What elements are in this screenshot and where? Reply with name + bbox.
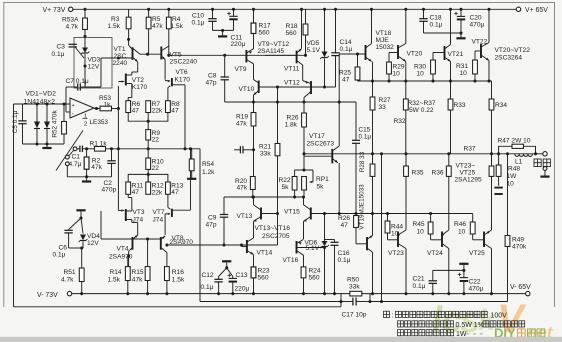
node top rail: [211, 8, 214, 11]
svg-text:VT1: VT1: [114, 46, 126, 53]
wire VT5 base line: [140, 53, 161, 55]
wire diag C12: [219, 268, 227, 277]
svg-text:47: 47: [171, 189, 179, 196]
svg-text:560: 560: [258, 274, 269, 281]
pot RP1: [302, 177, 307, 191]
svg-text:0.1μ: 0.1μ: [338, 257, 351, 264]
transistor Q VT15: [310, 208, 312, 220]
svg-text:R51: R51: [64, 269, 76, 276]
resistor R22: [292, 177, 297, 191]
capacitor C5: [22, 104, 24, 121]
svg-text:R32~R37: R32~R37: [408, 100, 436, 107]
transistor Q VT11: [296, 51, 298, 64]
wire R49 top: [507, 154, 509, 236]
resistor R37: [489, 166, 494, 176]
transistor Q VT5: [160, 47, 162, 60]
node top rail: [370, 8, 373, 11]
svg-text:VT3: VT3: [133, 209, 145, 216]
wire C3 diag: [75, 48, 84, 59]
svg-text:VT4: VT4: [117, 246, 129, 253]
svg-text:VT6: VT6: [176, 69, 188, 76]
wire driver line81: [358, 80, 492, 82]
svg-text:22: 22: [152, 136, 160, 143]
svg-text:47p: 47p: [206, 80, 217, 87]
svg-text:1.5k: 1.5k: [171, 23, 184, 30]
svg-text:220μ: 220μ: [231, 41, 246, 48]
svg-text:C12: C12: [202, 272, 214, 279]
node top rail: [300, 8, 303, 11]
resistor R47: [499, 146, 512, 154]
svg-text:VT23~: VT23~: [456, 162, 476, 169]
resistor R3: [128, 9, 130, 17]
node top rail: [83, 8, 86, 11]
svg-text:560: 560: [309, 275, 320, 282]
resistor R23: [251, 267, 256, 278]
svg-text:47: 47: [132, 107, 140, 114]
resistor R19: [253, 102, 255, 113]
wire R21 bot: [277, 156, 279, 245]
svg-text:R44: R44: [391, 223, 403, 230]
svg-text:10: 10: [460, 70, 468, 77]
capacitor C7: [66, 86, 77, 88]
svg-text:2SA1295: 2SA1295: [455, 176, 482, 183]
wire R10 bot: [147, 169, 149, 182]
svg-text:R29: R29: [393, 63, 405, 70]
resistor R30: [432, 53, 434, 61]
wire nfb line: [106, 148, 201, 150]
jfet VT6: [164, 60, 166, 80]
svg-text:VD3: VD3: [88, 57, 101, 64]
svg-text:2SC: 2SC: [114, 53, 127, 60]
wire R33 bus: [450, 110, 452, 154]
svg-text:2: 2: [84, 122, 87, 128]
capacitor C20: [460, 9, 462, 16]
wire line197: [224, 196, 304, 198]
svg-text:R5: R5: [152, 16, 161, 23]
svg-text:VT9: VT9: [235, 66, 247, 73]
svg-text:22k: 22k: [152, 189, 163, 196]
wire line102: [225, 101, 356, 103]
resistor R2: [86, 149, 88, 157]
capacitor C16: [325, 239, 335, 241]
svg-text:1.5k: 1.5k: [172, 276, 185, 283]
svg-text:VT25: VT25: [460, 169, 476, 176]
wire R34 bus: [491, 110, 493, 154]
transistor Q VT19: [366, 237, 368, 250]
svg-text:VD4: VD4: [87, 233, 100, 240]
svg-text:0.1μ: 0.1μ: [430, 21, 443, 28]
svg-text:R23: R23: [258, 267, 270, 274]
svg-text:R49: R49: [512, 236, 524, 243]
capacitor C17: [341, 301, 352, 303]
zener VD6: [324, 214, 326, 242]
capacitor C13: [232, 277, 234, 279]
svg-text:470k: 470k: [512, 244, 527, 251]
wire R49 bottom: [507, 247, 509, 302]
wire R26b bot: [303, 127, 305, 154]
svg-text:R18: R18: [286, 23, 298, 30]
svg-text:470μ: 470μ: [470, 22, 485, 29]
ground C12C13: [222, 260, 231, 262]
capacitor C1: [77, 148, 79, 150]
svg-text:4.7μ: 4.7μ: [69, 161, 82, 168]
wire main bus: [304, 153, 536, 155]
svg-text:K170: K170: [132, 84, 148, 91]
jfet VT3: [127, 194, 129, 197]
wire R53A bottom: [84, 30, 86, 38]
svg-text:C6: C6: [59, 244, 68, 251]
capacitor C6: [64, 229, 72, 231]
wire R27 bus: [372, 110, 374, 164]
svg-text:C14: C14: [340, 39, 352, 46]
wire src bar bot: [128, 174, 168, 182]
svg-text:R15: R15: [132, 269, 144, 276]
resistor R17: [253, 9, 255, 23]
ground output: [544, 170, 546, 175]
svg-text:470μ: 470μ: [469, 286, 484, 293]
inductor L1: [515, 154, 533, 157]
resistor R8: [166, 101, 171, 113]
resistor R51: [79, 268, 84, 282]
wire VT4 base line: [101, 238, 161, 240]
svg-text:2240: 2240: [113, 60, 128, 67]
svg-text:R47 2W 10: R47 2W 10: [498, 137, 531, 144]
svg-text:4.7k: 4.7k: [61, 276, 74, 283]
svg-text:R25: R25: [339, 69, 351, 76]
svg-text:VT13~VT16: VT13~VT16: [255, 225, 291, 232]
svg-text:C21: C21: [413, 275, 425, 282]
node top rail: [334, 8, 337, 11]
node top rail: [459, 8, 462, 11]
wire diag VD4: [81, 218, 83, 234]
svg-text:1.2k: 1.2k: [202, 169, 215, 176]
svg-text:VT13: VT13: [237, 213, 253, 220]
resistor R12: [146, 182, 151, 194]
zener VD3: [84, 38, 86, 48]
svg-text:C9: C9: [208, 214, 217, 221]
jfet VT2: [137, 62, 139, 72]
resistor R10: [146, 158, 151, 169]
svg-text:VT17: VT17: [309, 133, 325, 140]
note line3: [398, 330, 404, 336]
resistor R53: [100, 106, 112, 111]
svg-text:C13: C13: [236, 272, 248, 279]
jfet VT7: [167, 194, 169, 207]
ground C10C11: [218, 35, 227, 37]
transistor Q VT20: [397, 45, 399, 59]
resistor R15: [145, 267, 150, 281]
svg-text:12V: 12V: [88, 64, 100, 71]
zener VD4: [80, 235, 86, 241]
transistor Q VT9: [253, 34, 255, 49]
resistor R45: [430, 214, 432, 223]
svg-text:12V: 12V: [87, 240, 99, 247]
svg-text:VT19MJE15033: VT19MJE15033: [359, 184, 366, 230]
svg-text:VD5: VD5: [307, 40, 320, 47]
wire src bar top: [128, 113, 168, 122]
svg-text::: :: [392, 313, 394, 320]
ground C21C22: [459, 263, 468, 265]
transistor Q VT16: [296, 241, 298, 254]
svg-text:47k: 47k: [132, 276, 143, 283]
svg-text:5.1V: 5.1V: [307, 47, 321, 54]
svg-text:2SC2240: 2SC2240: [170, 59, 198, 66]
watermark DIY: [466, 326, 516, 341]
svg-text:5.1V: 5.1V: [306, 245, 320, 252]
capacitor C24 zobel: [494, 187, 502, 189]
ground ladder: [46, 144, 48, 147]
svg-text:C15: C15: [359, 127, 371, 134]
wire R50 stub L: [340, 294, 342, 302]
svg-text:47k: 47k: [152, 23, 163, 30]
svg-text:4.7k: 4.7k: [66, 24, 79, 31]
svg-text:R50: R50: [347, 276, 359, 283]
resistor R53A: [83, 18, 88, 30]
svg-text:R34: R34: [495, 102, 507, 109]
svg-text:VT10: VT10: [239, 86, 255, 93]
svg-text:5k: 5k: [282, 184, 290, 191]
svg-text:R48: R48: [508, 166, 520, 173]
wire R19 bot: [253, 126, 255, 177]
svg-text:22: 22: [152, 165, 160, 172]
capacitor C2: [111, 149, 113, 161]
diode VD1: [36, 104, 38, 122]
resistor R14: [125, 267, 130, 281]
svg-text:R53A: R53A: [62, 17, 79, 24]
svg-text:VT20: VT20: [407, 51, 423, 58]
svg-text:R32: R32: [394, 118, 406, 125]
svg-text:LE353: LE353: [90, 119, 109, 126]
note line2: [398, 321, 404, 327]
transistor Q VT17: [331, 149, 333, 164]
svg-text:VT16: VT16: [283, 257, 299, 264]
transistor Q VT18: [365, 45, 367, 60]
diag lever: [56, 131, 83, 171]
resistor R31: [474, 51, 476, 60]
svg-text:VT15: VT15: [284, 208, 300, 215]
wire R9-R10: [147, 140, 149, 158]
resistor R35: [404, 166, 409, 176]
svg-text:V- 73V: V- 73V: [37, 292, 58, 299]
svg-text:VT7: VT7: [153, 209, 165, 216]
wire R4-VT5C: [168, 29, 170, 56]
svg-text:0.1μ: 0.1μ: [192, 19, 205, 26]
svg-text:220μ: 220μ: [235, 285, 250, 292]
wire fb col 381: [381, 154, 383, 302]
resistor R27: [372, 81, 374, 97]
svg-text:L1: L1: [515, 158, 523, 165]
V+ 73V terminal: [69, 7, 73, 11]
svg-text:0.1μ: 0.1μ: [359, 134, 372, 141]
svg-text:10: 10: [417, 71, 425, 78]
svg-text:33k: 33k: [260, 151, 271, 158]
svg-text:1.5k: 1.5k: [108, 276, 121, 283]
svg-text:C7 0.1μ: C7 0.1μ: [66, 78, 89, 85]
capacitor C10: [212, 9, 214, 18]
svg-text:V- 65V: V- 65V: [510, 284, 531, 291]
svg-text:R1 1k: R1 1k: [90, 140, 108, 147]
capacitor C14: [335, 9, 337, 53]
op-amp U1 LE353: [70, 98, 94, 118]
resistor R20: [250, 177, 255, 190]
wire C21 link: [433, 269, 464, 271]
svg-text:560: 560: [286, 30, 297, 37]
resistor R52: [63, 104, 65, 122]
svg-text:1W: 1W: [507, 173, 518, 180]
wire R20 bot: [252, 190, 254, 198]
wire R53 right: [112, 108, 119, 110]
resistor R11: [126, 182, 131, 194]
resistor R48: [498, 154, 500, 165]
svg-text:VT14: VT14: [257, 249, 273, 256]
wire ladder bottom: [23, 143, 65, 145]
svg-text:10: 10: [393, 70, 401, 77]
transistor Q VT24: [441, 232, 443, 248]
svg-text:R26: R26: [287, 114, 299, 121]
svg-text:R3: R3: [111, 16, 120, 23]
svg-text:5W 0.22: 5W 0.22: [409, 107, 434, 114]
resistor R9: [147, 121, 149, 129]
zener VD5: [324, 9, 326, 51]
svg-text:R16: R16: [172, 269, 184, 276]
svg-text:VT9~VT12: VT9~VT12: [258, 41, 290, 48]
shield box C3/VD3: [74, 38, 112, 89]
ground C18C20: [456, 37, 465, 39]
wire fb vert bot: [100, 211, 102, 239]
svg-text:0.1μ: 0.1μ: [53, 252, 66, 259]
svg-text:2SC2705: 2SC2705: [262, 233, 290, 240]
svg-text:100V: 100V: [491, 313, 508, 320]
wire R51 bot: [81, 282, 83, 294]
svg-text:C18: C18: [430, 14, 442, 21]
node top rail: [404, 8, 407, 11]
ground input: [86, 177, 88, 181]
wire bias line213: [311, 213, 473, 215]
svg-text:C1: C1: [72, 153, 81, 160]
wire VT17 em: [338, 163, 340, 214]
svg-text:1.8k: 1.8k: [285, 122, 298, 129]
node top rail: [422, 8, 425, 11]
transistor Q VT23: [397, 232, 399, 248]
svg-text:15032: 15032: [376, 44, 395, 51]
wire opamp inv: [65, 87, 67, 112]
svg-text:R26: R26: [338, 215, 350, 222]
svg-text:0.1μ: 0.1μ: [52, 51, 65, 58]
svg-text:33: 33: [379, 104, 387, 111]
diode VD2: [46, 104, 48, 122]
resistor R6: [126, 101, 131, 113]
resistor R18: [305, 9, 307, 24]
resistor R16: [165, 267, 170, 281]
node top rail: [449, 8, 452, 11]
wire top rail: [73, 8, 516, 10]
resistor R4: [168, 9, 170, 17]
wire R3-VT1: [128, 29, 130, 45]
resistor R26b: [303, 102, 305, 113]
resistor R54: [191, 149, 193, 159]
svg-text:R4: R4: [172, 16, 181, 23]
wire R53A top: [84, 9, 86, 18]
svg-text:VT21: VT21: [448, 51, 464, 58]
resistor R25: [357, 54, 359, 67]
resistor R24: [301, 267, 306, 278]
capacitor C12: [218, 277, 220, 280]
svg-text:VT18: VT18: [376, 30, 392, 37]
wire gnd line in: [66, 166, 68, 177]
svg-text:R19: R19: [236, 113, 248, 120]
wire opamp out: [94, 108, 100, 110]
svg-text:R24: R24: [309, 268, 321, 275]
capacitor C8: [224, 55, 226, 77]
wire VD3 to node: [84, 54, 86, 66]
transistor Q VT8: [160, 237, 162, 250]
wire input col: [117, 109, 119, 211]
capacitor C22: [463, 270, 465, 277]
svg-text:VT23: VT23: [388, 250, 404, 257]
svg-text:R36: R36: [432, 169, 444, 176]
svg-text:R30: R30: [414, 63, 426, 70]
svg-text:R27: R27: [379, 97, 391, 104]
svg-text:VD1~VD2: VD1~VD2: [26, 91, 57, 98]
svg-text:VT12: VT12: [284, 79, 300, 86]
capacitor comp: [234, 149, 240, 151]
svg-text:47: 47: [171, 107, 179, 114]
svg-text:0.5W 1%: 0.5W 1%: [456, 322, 484, 329]
capacitor C15: [355, 102, 357, 140]
svg-text:R54: R54: [202, 161, 214, 168]
wire nfb to fbline: [199, 149, 201, 302]
svg-text:J74: J74: [133, 216, 144, 223]
resistor R33: [448, 99, 453, 110]
svg-text:5k: 5k: [317, 183, 325, 190]
svg-text:33k: 33k: [349, 284, 360, 291]
wire C18C20 gnd: [424, 32, 462, 34]
svg-text:-: -: [72, 112, 74, 118]
svg-text:C20: C20: [470, 14, 482, 21]
svg-text:2SA1145: 2SA1145: [258, 48, 285, 55]
resistor R28: [370, 164, 375, 176]
svg-text:C10: C10: [192, 12, 204, 19]
V+ 65V terminal: [516, 7, 520, 11]
wire drive line55: [169, 54, 306, 56]
svg-text:R35: R35: [412, 169, 424, 176]
svg-text:C17 10p: C17 10p: [342, 312, 367, 319]
svg-text:2SC3264: 2SC3264: [495, 54, 523, 61]
text output: [534, 159, 541, 167]
svg-text:V+ 73V: V+ 73V: [43, 7, 66, 14]
transistor Q VT10: [258, 81, 260, 94]
svg-text:1W: 1W: [456, 331, 467, 338]
node top rail: [232, 8, 235, 11]
svg-text:47k: 47k: [236, 121, 247, 128]
svg-text:0.1μ: 0.1μ: [201, 284, 214, 291]
svg-text:2SC2673: 2SC2673: [307, 140, 335, 147]
svg-text:R22: R22: [279, 177, 291, 184]
capacitor C3: [69, 43, 77, 45]
wire diag C13: [227, 268, 233, 277]
svg-text:47k: 47k: [91, 164, 102, 171]
svg-text:2SA970: 2SA970: [109, 254, 133, 261]
wire fb vert: [100, 58, 102, 87]
capacitor C9: [223, 197, 225, 215]
resistor R34: [489, 99, 494, 110]
svg-text:0.1μ: 0.1μ: [340, 46, 353, 53]
svg-text:R31: R31: [456, 63, 468, 70]
ground R54: [191, 171, 193, 178]
svg-text:V+ 65V: V+ 65V: [525, 7, 548, 14]
svg-text:470p: 470p: [102, 187, 117, 194]
resistor R29: [388, 53, 390, 63]
